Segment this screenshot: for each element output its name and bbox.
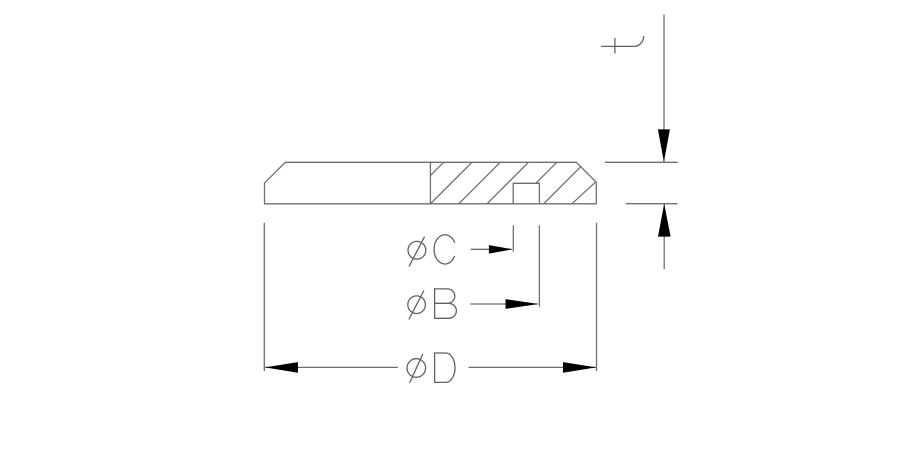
t dim upper arrow [658, 129, 670, 162]
dia C arrow [489, 245, 513, 254]
dia D right arrow [563, 362, 596, 373]
letter C [434, 235, 454, 264]
dia D left arrow [265, 362, 298, 373]
t dim upper leader line [663, 15, 665, 162]
dia D right extension line [596, 223, 598, 371]
part outline (washer cross-section with chamfers) [265, 162, 597, 204]
section boundary line [429, 162, 431, 204]
t dim lower leader line [663, 204, 665, 269]
letter B [434, 289, 436, 318]
hatch line 3 [487, 162, 529, 204]
hatch line 0 [430, 162, 443, 175]
dia C extension line [512, 225, 514, 251]
hatch line 5 [544, 167, 581, 204]
label t (rotated CAD glyph) [602, 37, 644, 47]
diameter symbol of D [407, 359, 426, 378]
dia D dim line left segment [265, 366, 398, 368]
dia B arrow [506, 299, 539, 309]
hatch line 4 (clipped by square) [536, 162, 557, 183]
t dim bottom extension line [626, 203, 678, 205]
hatch line 6 [572, 182, 596, 204]
t dim lower arrow [658, 204, 671, 237]
dia D dim line right segment [469, 366, 597, 368]
hatch line 1 [430, 162, 472, 204]
groove square on bore [513, 183, 539, 204]
t dim top extension line [605, 161, 678, 163]
diameter symbol of C [408, 241, 426, 259]
dia B extension line [538, 225, 540, 306]
dia D left extension line [263, 223, 265, 371]
letter D [434, 353, 436, 382]
dia B leader line [470, 303, 537, 305]
diameter symbol of B [408, 296, 426, 314]
hatch line 2 [459, 162, 501, 204]
dia C leader line [471, 248, 512, 250]
